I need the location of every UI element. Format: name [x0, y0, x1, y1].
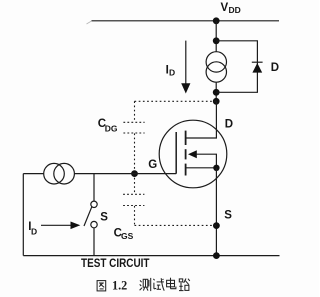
wire stub artifact at rail start	[87, 21, 92, 24]
arrow Id (drain current direction)	[181, 41, 190, 94]
wire Cdg dashed vertical upper	[134, 101, 136, 122]
glyph 路	[179, 279, 190, 291]
transistor Q1 gate bar	[175, 132, 177, 174]
transistor Q1 body lead	[196, 154, 216, 168]
node diode branch top junction	[213, 37, 220, 44]
wire Cdg dashed vertical lower	[134, 133, 136, 173]
svg-text:S: S	[100, 211, 108, 223]
wire gate rail left of current source	[23, 173, 43, 175]
transistor Q1 source lead	[186, 167, 217, 169]
node Q1 source-body junction	[213, 165, 219, 171]
svg-text:S: S	[224, 209, 232, 221]
switch S branch lower wire	[93, 228, 95, 256]
svg-text:V: V	[221, 2, 229, 14]
wire Cgs dashed vertical lower	[134, 206, 136, 226]
svg-text:DG: DG	[105, 123, 118, 133]
caption: 图 1.2 测试电路 (hand-drawn CJK glyphs + serif digits)	[97, 278, 190, 293]
wire diode branch	[216, 41, 257, 93]
switch S arm	[84, 206, 92, 226]
svg-text:D: D	[169, 68, 175, 78]
wire Cgs dashed vertical upper	[134, 174, 136, 194]
svg-text:DD: DD	[229, 5, 241, 15]
capacitor Cdg plates (dashed)	[123, 122, 144, 133]
diode D (anode triangle)	[252, 63, 262, 73]
node gate junction	[131, 170, 138, 177]
svg-text:D: D	[225, 119, 233, 131]
arrow Id (gate charge current direction)	[41, 222, 80, 230]
wire Cgs bottom dashed connection	[135, 224, 217, 226]
switch S top contact	[91, 201, 97, 207]
svg-text:1.2: 1.2	[112, 279, 127, 293]
current source I1 (drain current source, two overlapped circles)	[206, 52, 226, 82]
wire bottom rail	[23, 255, 279, 257]
wire gate rail right of current source	[74, 173, 176, 175]
switch S branch upper wire	[93, 174, 95, 202]
glyph 试	[153, 278, 164, 291]
current source I2 (gate current source, two overlapped circles)	[44, 163, 75, 184]
wire drain branch upper segment	[215, 21, 217, 52]
wire below current source I1	[215, 82, 217, 101]
svg-text:TEST CIRCUIT: TEST CIRCUIT	[81, 258, 150, 270]
wire Cdg top dashed connection	[135, 100, 217, 102]
node diode branch bottom junction	[213, 89, 220, 96]
svg-text:D: D	[31, 227, 37, 237]
wire left vertical	[22, 174, 24, 256]
node VDD junction	[213, 17, 220, 24]
wire VDD top rail	[92, 20, 280, 22]
diode D (cathode bar)	[252, 61, 263, 63]
transistor Q1 channel segment (drain)	[185, 131, 187, 145]
capacitor Cgs plates (dashed)	[123, 194, 144, 205]
transistor Q1 drain lead	[186, 101, 217, 138]
switch S bottom contact	[91, 221, 97, 227]
node Cgs source junction	[213, 222, 220, 229]
glyph 图	[97, 281, 106, 291]
transistor Q1 MOSFET body circle	[159, 120, 227, 188]
node Cdg drain junction	[213, 98, 220, 105]
transistor Q1 channel segment (source)	[185, 164, 187, 176]
glyph 测	[140, 278, 151, 291]
svg-text:GS: GS	[121, 231, 134, 241]
glyph 电	[167, 278, 176, 289]
transistor Q1 channel segment (body)	[185, 149, 187, 159]
svg-text:G: G	[148, 159, 157, 171]
wire source branch	[215, 168, 217, 256]
transistor Q1 body arrow	[188, 150, 197, 158]
svg-text:D: D	[271, 62, 279, 74]
node source bottom junction	[213, 252, 220, 259]
